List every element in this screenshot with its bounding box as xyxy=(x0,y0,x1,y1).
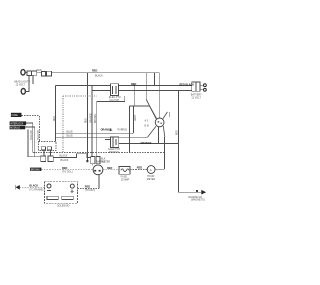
svg-text:RED: RED xyxy=(62,167,67,170)
svg-text:GRAY: GRAY xyxy=(134,114,137,121)
svg-text:MODULE: MODULE xyxy=(10,128,20,130)
svg-text:B M: B M xyxy=(145,125,149,128)
svg-text:12 VOLT: 12 VOLT xyxy=(16,84,26,87)
svg-text:BLACK: BLACK xyxy=(29,185,38,188)
svg-text:FUSE: FUSE xyxy=(12,115,19,117)
svg-text:RED: RED xyxy=(85,185,90,188)
svg-text:CLUTCH: CLUTCH xyxy=(110,99,120,102)
svg-text:20 AMP: 20 AMP xyxy=(121,178,130,181)
svg-text:BLUE: BLUE xyxy=(67,130,74,133)
svg-text:RED: RED xyxy=(137,166,142,169)
svg-text:SWITCH: SWITCH xyxy=(109,151,119,154)
svg-text:BLACK: BLACK xyxy=(61,159,69,162)
svg-text:BLUE: BLUE xyxy=(67,134,74,137)
svg-text:RED BLACK: RED BLACK xyxy=(180,83,195,86)
svg-text:(TO FRAME): (TO FRAME) xyxy=(29,188,43,191)
svg-text:RED: RED xyxy=(54,116,56,121)
svg-text:AMP METER: AMP METER xyxy=(96,160,110,163)
svg-text:BLACK: BLACK xyxy=(95,74,103,77)
svg-text:(TO SOL.): (TO SOL.) xyxy=(62,171,73,174)
svg-text:A S: A S xyxy=(145,120,149,123)
svg-text:BROWN: BROWN xyxy=(31,169,40,171)
svg-text:BLACK: BLACK xyxy=(60,154,68,157)
svg-text:RED: RED xyxy=(37,69,42,72)
svg-text:INTERLOCK: INTERLOCK xyxy=(10,123,24,125)
svg-text:(TO KEY): (TO KEY) xyxy=(85,189,96,192)
svg-text:RED: RED xyxy=(107,167,112,170)
svg-text:METER: METER xyxy=(147,178,156,181)
svg-text:ORANGE: ORANGE xyxy=(89,113,92,123)
svg-text:12 VOLT: 12 VOLT xyxy=(191,96,201,99)
svg-text:ORANGE: ORANGE xyxy=(141,142,152,145)
svg-text:RED: RED xyxy=(86,118,88,123)
svg-text:(MAGNETO): (MAGNETO) xyxy=(191,199,205,202)
svg-text:PURPLE: PURPLE xyxy=(118,128,128,131)
svg-text:RED: RED xyxy=(92,70,97,73)
svg-text:BROWN: BROWN xyxy=(95,114,97,123)
svg-text:SOLENOID: SOLENOID xyxy=(57,205,70,208)
svg-text:A: A xyxy=(150,168,152,172)
